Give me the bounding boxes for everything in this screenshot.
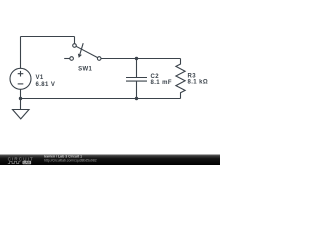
- svg-text:6.81 V: 6.81 V: [36, 82, 56, 88]
- svg-text:8.1 mF: 8.1 mF: [151, 80, 172, 86]
- svg-text:SW1: SW1: [78, 67, 92, 73]
- svg-text:V1: V1: [36, 75, 44, 81]
- ground: [13, 110, 30, 119]
- node junction ground: [19, 97, 22, 100]
- svg-text:C2: C2: [151, 74, 160, 80]
- logo waveform: [8, 161, 21, 163]
- svg-text:8.1 kΩ: 8.1 kΩ: [188, 80, 209, 86]
- switch SW1: [64, 43, 101, 60]
- resistor R3: [176, 59, 185, 99]
- wire switch top drop: [74, 37, 76, 44]
- node junction C2 top: [135, 57, 138, 60]
- svg-text:LAB: LAB: [24, 161, 31, 165]
- svg-text:CIRCUIT: CIRCUIT: [8, 156, 34, 161]
- footer bar: [0, 154, 220, 165]
- node junction C2 bottom: [135, 97, 138, 100]
- svg-text:R3: R3: [188, 73, 197, 79]
- wire bottom right segment: [137, 98, 181, 100]
- wire C2 top to R3 corner: [137, 58, 181, 60]
- voltage source V1: [10, 68, 31, 89]
- wire top horizontal: [21, 36, 75, 38]
- wire switch to C2 top: [101, 58, 136, 60]
- wire ground stub: [20, 99, 22, 110]
- wire left vertical: [20, 37, 22, 69]
- wire bottom left segment: [21, 98, 137, 100]
- logo LAB chip: [23, 161, 32, 165]
- wire V1 bottom lead: [20, 89, 22, 98]
- capacitor C2: [126, 59, 147, 99]
- svg-text:http://circuitlab.com/cqu38bd5: http://circuitlab.com/cqu38bd5u982: [44, 158, 97, 162]
